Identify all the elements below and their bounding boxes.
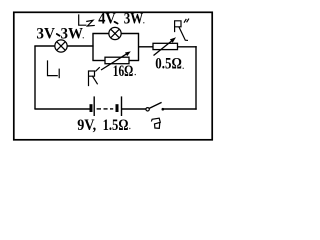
wire: bottom branch left (92, 60, 105, 62)
svg-text:4V: 4V (98, 10, 116, 27)
wire: switch to bottom right corner (163, 108, 197, 110)
svg-text:1.5Ω: 1.5Ω (103, 117, 129, 134)
svg-text:3W: 3W (61, 26, 84, 43)
rheostat R'' arrow (154, 37, 177, 55)
label R'' (0.5 ohm rheostat) (175, 19, 189, 40)
label L1 (48, 61, 60, 78)
node: parallel block left vertical (92, 34, 94, 61)
label L2 (79, 15, 95, 26)
wire: rheostat R'' to right corner (178, 46, 197, 48)
node: parallel block right vertical (138, 34, 140, 61)
svg-text:16Ω: 16Ω (113, 63, 134, 80)
switch S contact dot (162, 108, 165, 111)
wire: top branch left (92, 33, 108, 35)
lamp L2 (4V 3W) (109, 27, 121, 39)
battery cell 2 negative plate (116, 104, 119, 112)
wire: top-left horizontal to lamp L1 (34, 45, 54, 47)
switch S pivot (146, 108, 149, 111)
wire: bottom left to battery (34, 108, 89, 110)
wire: bottom branch right (129, 60, 139, 62)
svg-text:0.5Ω: 0.5Ω (155, 56, 182, 73)
wire: battery to switch (122, 108, 147, 110)
value label 3V 3W for L1 (36, 26, 83, 43)
scan artifact dots (83, 22, 184, 129)
rheostat R' body 16ohm (105, 57, 129, 64)
wire: top branch right (122, 33, 140, 35)
label S (switch) (151, 118, 160, 128)
svg-text:9V,: 9V, (77, 117, 96, 134)
rheostat R' arrow (101, 51, 131, 70)
switch S lever (149, 102, 161, 108)
battery cell 2 positive plate (121, 96, 123, 116)
value label 4V 3W for L2 (98, 10, 143, 27)
wire: lamp L1 to parallel block (68, 45, 94, 47)
lamp L1 (3V 3W) (55, 40, 67, 52)
svg-text:3V: 3V (36, 26, 55, 43)
svg-text:3W: 3W (124, 10, 144, 27)
wire: left vertical (34, 46, 36, 109)
rheostat R'' body 0.5ohm (153, 43, 178, 49)
battery cell 1 negative plate (90, 104, 93, 112)
battery cell 1 positive plate (93, 96, 95, 116)
wire: block to rheostat R'' (139, 46, 154, 48)
wire: right vertical (195, 46, 197, 110)
battery dashed link (97, 108, 114, 110)
label R' (16 ohm rheostat) (89, 68, 100, 86)
